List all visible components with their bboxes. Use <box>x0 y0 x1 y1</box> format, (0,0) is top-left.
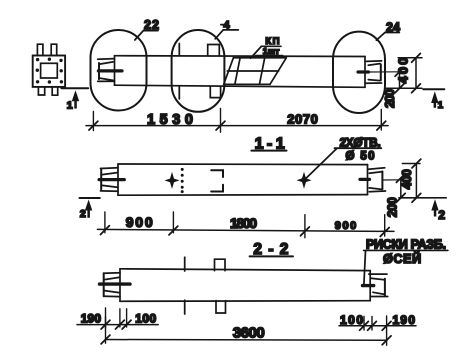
svg-text:190: 190 <box>393 313 416 327</box>
axis tick top section 2-2 <box>184 257 186 271</box>
vertical dimension 400/200 section 1-1 <box>385 159 446 217</box>
centre line right section 1-1 <box>383 179 401 181</box>
section marker 2 left line <box>80 197 100 199</box>
svg-text:900: 900 <box>126 214 153 230</box>
right end anchor section 1-1 <box>360 168 386 192</box>
right end anchor section 2-2 <box>363 274 388 296</box>
svg-text:200: 200 <box>382 89 397 108</box>
title 1-1 <box>251 135 286 152</box>
svg-text:200: 200 <box>385 197 399 217</box>
svg-text:РИСКИ РАЗБ.: РИСКИ РАЗБ. <box>366 237 446 251</box>
axis tab bottom middle oval <box>210 86 220 97</box>
dotted axis column <box>181 168 184 193</box>
end view top-left stub <box>37 44 43 55</box>
dimension row 1530 / 2070 <box>86 108 388 132</box>
axis tab bottom section 2-2 <box>216 301 226 313</box>
vertical dimension 400/200 top view <box>382 53 422 108</box>
axis tick bottom section 2-2 <box>184 300 186 314</box>
section marker 1 right arrow <box>431 91 438 108</box>
axis tick bottom middle oval <box>178 86 180 99</box>
section marker 2 right arrow <box>431 199 438 216</box>
label 24 <box>376 20 400 40</box>
svg-text:2070: 2070 <box>287 111 318 126</box>
left end anchor top view <box>98 59 122 82</box>
beam outline section 1-1 <box>118 164 368 195</box>
section marker 1 right line <box>423 88 444 90</box>
axis tab top section 2-2 <box>215 259 226 271</box>
svg-text:1: 1 <box>67 100 73 112</box>
corner bracket top <box>211 170 223 177</box>
end view bottom-right stub <box>52 87 58 95</box>
strop hole diamond 1 <box>165 172 180 189</box>
oval 4 (middle) <box>172 30 225 112</box>
dimension row 900/1800/900 <box>97 212 394 238</box>
svg-text:2: 2 <box>438 208 445 222</box>
svg-text:2: 2 <box>80 208 86 220</box>
dimension row 3600 <box>101 316 391 345</box>
svg-text:1: 1 <box>438 100 444 111</box>
end view bolt dots <box>36 58 64 84</box>
title 2-2 <box>250 241 293 258</box>
label 22 <box>135 18 159 40</box>
end view top-right stub <box>51 44 57 55</box>
axis tick top middle oval <box>178 44 180 56</box>
left end anchor section 2-2 <box>100 273 131 297</box>
right end anchor top view <box>358 61 382 83</box>
left end anchor section 1-1 <box>99 168 124 192</box>
axis tab top middle oval <box>208 45 220 56</box>
section marker 1 left line <box>61 87 88 89</box>
svg-text:Ø 50: Ø 50 <box>346 150 375 162</box>
oval 22 (left) <box>91 30 147 111</box>
mesh KP parallelogram <box>224 58 287 85</box>
svg-text:1800: 1800 <box>230 215 257 231</box>
dimension row right 100/190 <box>339 313 416 330</box>
corner bracket bottom <box>211 185 223 192</box>
svg-text:100: 100 <box>135 312 156 326</box>
label 2xOTV <box>305 138 382 180</box>
svg-text:3600: 3600 <box>233 324 265 341</box>
beam outline section 2-2 <box>120 269 370 302</box>
svg-text:400: 400 <box>400 169 414 189</box>
svg-text:100: 100 <box>340 313 363 327</box>
oval 24 (right) <box>333 32 385 113</box>
label 4 <box>215 20 238 39</box>
label riski razb osey <box>364 237 448 284</box>
svg-text:ØСЕЙ: ØСЕЙ <box>383 251 421 266</box>
centre line right top view <box>369 71 400 73</box>
strop hole diamond 2 <box>297 172 312 189</box>
svg-text:900: 900 <box>335 220 357 232</box>
svg-text:190: 190 <box>81 312 102 326</box>
dimension row left 190/100 <box>77 308 158 329</box>
beam outline top view <box>115 56 366 88</box>
section marker 2 left arrow <box>85 200 92 218</box>
section marker 1 left arrow <box>72 90 79 108</box>
end view bottom-left stub <box>38 87 44 95</box>
label KP 1sht <box>251 36 283 58</box>
svg-text:400: 400 <box>396 58 411 84</box>
end view square plate <box>33 56 65 87</box>
